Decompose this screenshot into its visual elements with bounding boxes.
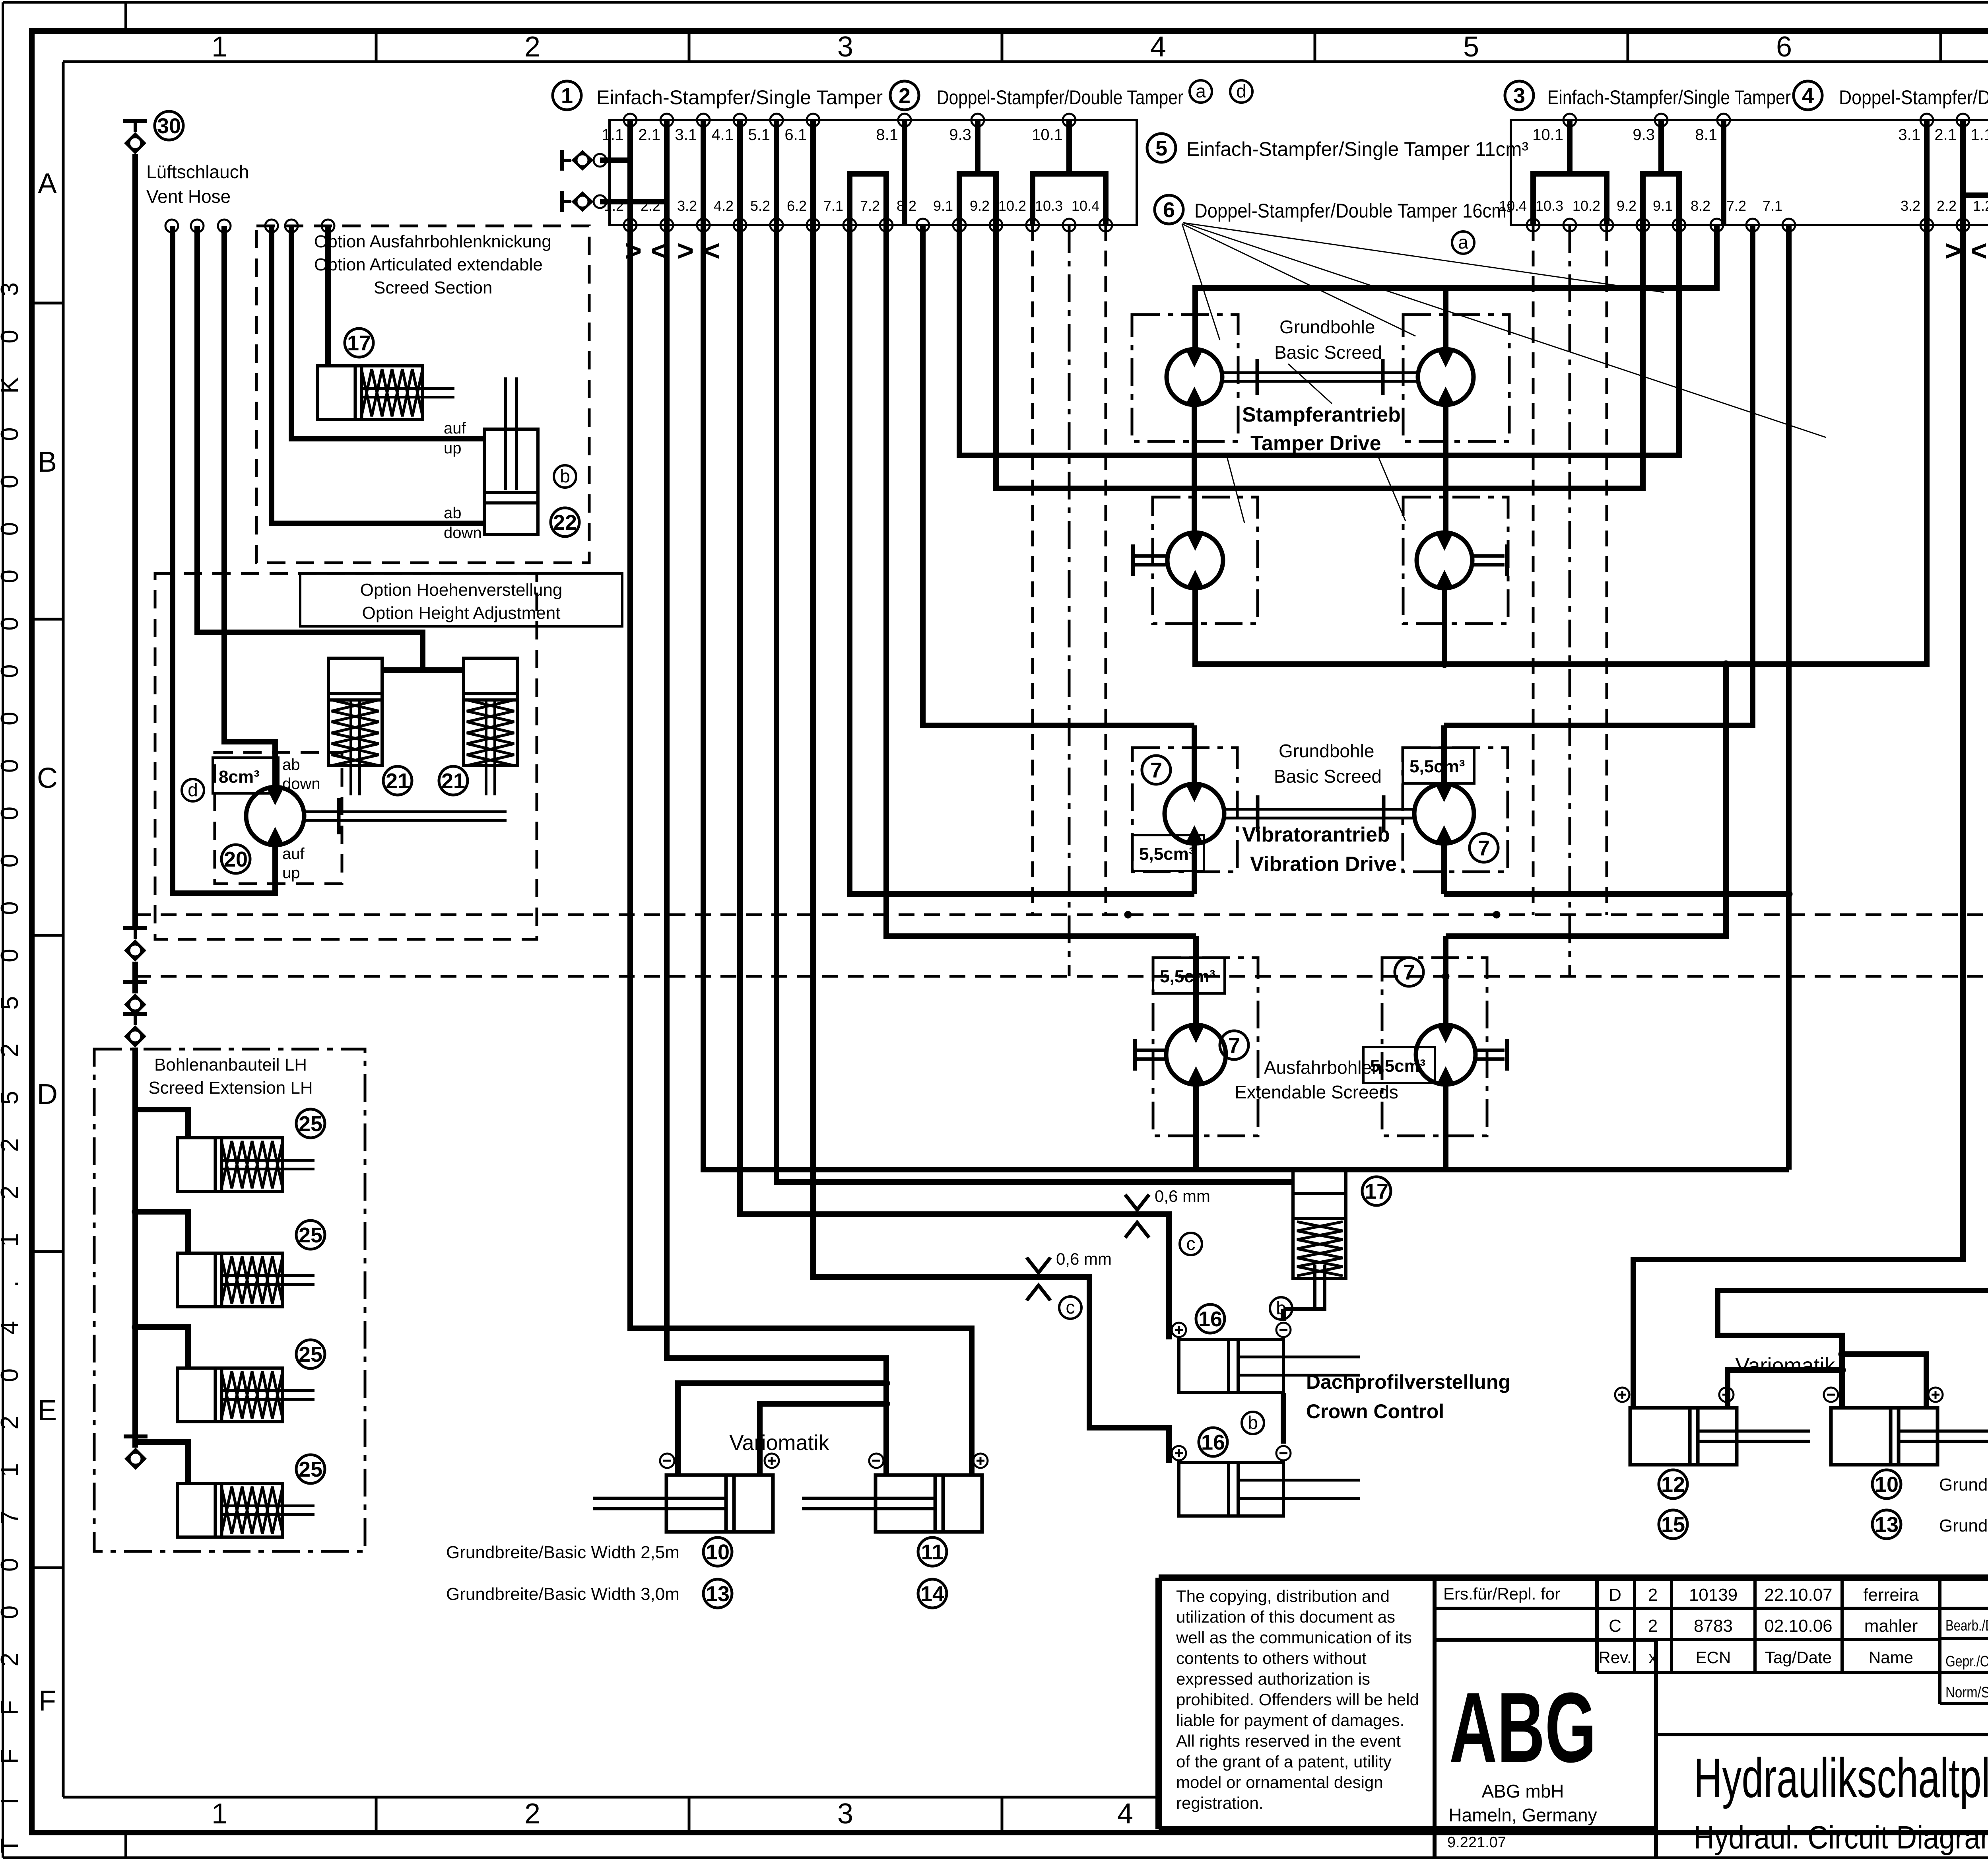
wire 8.1R drop (1721, 120, 1726, 225)
svg-text:2.1: 2.1 (1934, 126, 1957, 144)
label auf up left (444, 420, 466, 457)
wire 10.1 drop (1066, 120, 1072, 174)
callout 17 crown (1362, 1177, 1391, 1205)
norm row (1945, 1684, 1988, 1701)
svg-text:6: 6 (1163, 198, 1175, 222)
wire 20 top left (224, 226, 275, 787)
trunk 7.1 (850, 225, 1194, 894)
tamper2 shaft right (1472, 544, 1507, 576)
svg-text:ABG: ABG (1449, 1672, 1596, 1783)
label option articulated left (314, 232, 551, 297)
callout 10 left (703, 1537, 732, 1566)
wire 21 feed left (197, 226, 464, 670)
ext right shaft (1475, 1039, 1507, 1071)
svg-text:2: 2 (1648, 1585, 1658, 1605)
svg-text:13: 13 (706, 1582, 730, 1606)
bearb row (1945, 1615, 1988, 1635)
svg-text:Crown Control: Crown Control (1306, 1400, 1444, 1423)
left strip top terminals (624, 114, 1076, 126)
label single tamper left (596, 86, 883, 109)
svg-text:16: 16 (1201, 1430, 1225, 1454)
column labels bottom (212, 1798, 1133, 1830)
svg-text:Variomatik: Variomatik (729, 1431, 829, 1455)
callout 5 (1147, 134, 1176, 162)
label 55cm3 ext right (1363, 1047, 1435, 1083)
callout 7 vib left (1142, 756, 1171, 784)
right strip bottom terminals (1527, 219, 1988, 231)
LH bottom vent (124, 1436, 148, 1470)
svg-text:14: 14 (920, 1582, 944, 1606)
motor 20 left shaft (304, 798, 507, 834)
callout d left (182, 779, 204, 801)
callout 12 (1659, 1470, 1687, 1498)
svg-text:13: 13 (1875, 1513, 1899, 1537)
copyright text block (1176, 1587, 1419, 1812)
svg-text:Grundbohle: Grundbohle (1279, 741, 1374, 761)
motor vib right (1414, 725, 1474, 894)
bridge 9.2R-9.1R (1643, 174, 1679, 225)
motor ext left (1166, 936, 1226, 1170)
svg-text:7.2: 7.2 (860, 198, 880, 214)
label basic width right 30 (1939, 1516, 1988, 1535)
svg-text:3.2: 3.2 (1901, 198, 1920, 214)
dashed trunk 10.4R (1532, 225, 1535, 915)
svg-text:registration.: registration. (1176, 1794, 1263, 1812)
svg-text:9.2: 9.2 (970, 198, 990, 214)
LH extension dashed box (94, 1049, 365, 1551)
svg-text:auf: auf (444, 420, 466, 437)
svg-text:12: 12 (1661, 1473, 1685, 1497)
motor M1 left tamper (1167, 349, 1222, 405)
right strip bottom port labels (1499, 198, 1988, 214)
callout 16 upper (1196, 1304, 1225, 1333)
left strip bottom terminals (624, 219, 1112, 231)
svg-text:10.4: 10.4 (1499, 198, 1527, 214)
svg-text:Hydraulikschaltplan: Hydraulikschaltplan (1694, 1747, 1988, 1809)
tamper box 2 right (1403, 497, 1508, 624)
svg-text:Hydraul. Circuit Diagram: Hydraul. Circuit Diagram (1694, 1819, 1988, 1856)
wire 10.1R drop (1567, 120, 1573, 174)
label 55cm3 vib right (1403, 748, 1474, 783)
svg-text:A: A (38, 168, 57, 200)
svg-text:16: 16 (1198, 1307, 1222, 1331)
label screed extension LH (148, 1055, 313, 1098)
cyl 17 left (317, 226, 454, 420)
svg-text:0,6 mm: 0,6 mm (1056, 1250, 1112, 1268)
svg-text:a: a (1458, 232, 1468, 253)
title text (1694, 1747, 1988, 1856)
callout 2 (890, 81, 919, 110)
ext left shaft (1135, 1039, 1166, 1071)
svg-text:7: 7 (1228, 1034, 1240, 1057)
svg-text:5,5cm³: 5,5cm³ (1409, 757, 1465, 776)
wire lower16 link (1281, 1393, 1286, 1444)
ext box left (1153, 958, 1258, 1136)
svg-text:25: 25 (299, 1223, 322, 1247)
svg-text:Vent Hose: Vent Hose (146, 186, 231, 207)
cyl 21 left b (464, 658, 517, 795)
LH extension cylinders 25 (177, 1138, 315, 1537)
label basic width left 25 (446, 1543, 679, 1562)
vario bridge left a (678, 1380, 890, 1475)
svg-text:6.2: 6.2 (787, 198, 807, 214)
tamper bottom bus (1195, 225, 1927, 668)
svg-text:down: down (282, 775, 320, 793)
svg-text:ab: ab (282, 756, 300, 774)
label crown control (1306, 1371, 1510, 1423)
vario bridge right a (1728, 1366, 1846, 1408)
crown pm upper (1172, 1323, 1291, 1337)
svg-text:Doppel-Stampfer/Double Tamper: Doppel-Stampfer/Double Tamper (1839, 86, 1988, 109)
dashed box motor20 left (215, 752, 342, 884)
left tamper connector box (610, 120, 1137, 225)
callout c lower (1059, 1296, 1081, 1319)
callout 15 (1659, 1510, 1687, 1539)
svg-text:25: 25 (299, 1343, 322, 1366)
svg-text:F: F (39, 1685, 56, 1717)
svg-text:8.2: 8.2 (1691, 198, 1710, 214)
svg-text:9.3: 9.3 (1633, 126, 1655, 144)
svg-text:Bohlenanbauteil LH: Bohlenanbauteil LH (154, 1055, 307, 1075)
label 55cm3 ext left (1153, 958, 1225, 993)
label ab down 20 left (282, 756, 320, 793)
ext box right (1382, 958, 1487, 1136)
LH feed branches (132, 1110, 188, 1483)
svg-text:D: D (37, 1079, 58, 1110)
svg-text:Gepr./Chkd.: Gepr./Chkd. (1945, 1653, 1988, 1670)
svg-text:b: b (1248, 1412, 1258, 1433)
vario cyl right b (1831, 1408, 1988, 1465)
svg-text:2: 2 (524, 31, 540, 63)
svg-text:Vibration Drive: Vibration Drive (1250, 853, 1397, 876)
motor M2 left tamper (1167, 533, 1223, 588)
svg-text:Einfach-Stampfer/Single Tamper: Einfach-Stampfer/Single Tamper 11cm³ (1186, 138, 1528, 160)
right tamper connector box (1511, 120, 1988, 225)
ers fuer cell (1435, 1578, 1656, 1672)
svg-text:Option Height Adjustment: Option Height Adjustment (362, 603, 561, 623)
callout 4 (1794, 81, 1822, 110)
cyl 21 left a (328, 658, 382, 795)
svg-text:Hameln, Germany: Hameln, Germany (1448, 1805, 1597, 1825)
svg-text:8783: 8783 (1694, 1616, 1733, 1636)
label ausfahrbohlen (1235, 1057, 1398, 1102)
svg-text:10.3: 10.3 (1536, 198, 1563, 214)
svg-text:22.10.07: 22.10.07 (1764, 1585, 1832, 1605)
fold mark bottom-left (124, 1833, 127, 1858)
svg-text:>: > (1945, 235, 1961, 267)
right check valve lower (1963, 185, 1988, 206)
right strip crossover marks (1945, 235, 1988, 267)
svg-text:1.1: 1.1 (602, 126, 624, 144)
svg-text:6.1: 6.1 (784, 126, 807, 144)
svg-text:8.1: 8.1 (1695, 126, 1717, 144)
trunk 3.2 (703, 225, 1196, 1170)
rev table grid (1597, 1578, 1988, 1704)
LH callouts 25 (296, 1109, 325, 1483)
bridge 7.1-7.2 (850, 174, 886, 225)
svg-text:x: x (1649, 1648, 1657, 1667)
svg-text:7.1: 7.1 (823, 198, 843, 214)
svg-text:17: 17 (347, 331, 371, 355)
vib shaft (1224, 795, 1414, 832)
dashed boundary lower (135, 973, 1988, 980)
svg-text:Grundbreite/Basic Width 2,5m: Grundbreite/Basic Width 2,5m (446, 1543, 679, 1562)
svg-text:Norm/Stds.: Norm/Stds. (1945, 1684, 1988, 1701)
dashed trunk 10.2R (1606, 225, 1608, 915)
trunk 2.2 (667, 225, 886, 1475)
svg-text:D: D (1609, 1585, 1621, 1605)
callout 7 ext left (1220, 1031, 1248, 1059)
ABG title divider (1654, 1640, 1658, 1858)
svg-text:Option Articulated extendable: Option Articulated extendable (314, 255, 543, 274)
svg-text:1: 1 (561, 84, 573, 108)
svg-text:30: 30 (157, 114, 181, 138)
callout 6 (1155, 195, 1183, 224)
svg-text:ferreira: ferreira (1863, 1585, 1919, 1605)
tamper box 1 right (1403, 315, 1509, 441)
svg-text:5.1: 5.1 (748, 126, 770, 144)
dashed trunk 10.3R (1569, 225, 1571, 976)
junction dots row1 (1191, 452, 1449, 492)
svg-text:Basic Screed: Basic Screed (1274, 342, 1382, 363)
label double tamper 16cm3 (1194, 200, 1512, 222)
bridge 9.1-9.2 (959, 174, 996, 225)
dashed trunk 10.4 (1105, 225, 1107, 915)
callout a top-left (1190, 80, 1212, 103)
svg-text:9.221.07: 9.221.07 (1447, 1834, 1506, 1851)
left check valve lower (562, 191, 667, 212)
trunk 8.2 (923, 225, 1194, 725)
wire 20 bottom left (173, 226, 275, 893)
label stampferantrieb (1242, 403, 1401, 455)
tamper box 2 left (1153, 497, 1258, 624)
label option height left (360, 580, 563, 623)
svg-text:5,5cm³: 5,5cm³ (1139, 844, 1194, 864)
svg-text:E: E (38, 1395, 57, 1427)
wire auf left (291, 226, 484, 439)
vib bottom bus right (1444, 225, 1789, 894)
vario bridge left b (760, 1400, 890, 1475)
callout 21 left b (439, 766, 468, 795)
svg-text:02.10.06: 02.10.06 (1764, 1616, 1832, 1636)
dashed boundary upper (135, 911, 1988, 918)
svg-text:10.3: 10.3 (1035, 198, 1063, 214)
svg-text:>: > (677, 235, 694, 267)
callout 21 left a (383, 766, 412, 795)
bridge 10.2-10.4 (1033, 174, 1106, 225)
svg-text:Lüftschlauch: Lüftschlauch (146, 161, 249, 182)
dashed trunk 10.3 (1068, 225, 1071, 976)
svg-text:c: c (1066, 1297, 1075, 1318)
callout 17 left (345, 328, 373, 357)
svg-text:5: 5 (1155, 136, 1167, 160)
svg-text:b: b (560, 466, 570, 486)
svg-text:4: 4 (1117, 1798, 1133, 1830)
callout 11 left (918, 1537, 947, 1566)
svg-text:Basic Screed: Basic Screed (1274, 766, 1382, 787)
motor M1 right tamper (1418, 288, 1474, 405)
svg-text:Stampferantrieb: Stampferantrieb (1242, 403, 1401, 426)
fold mark top-left (124, 2, 127, 31)
callout d top-left (1230, 80, 1252, 103)
svg-text:Screed Section: Screed Section (374, 278, 492, 297)
trunk 1.2 (630, 225, 972, 1475)
svg-text:d: d (1236, 81, 1246, 101)
svg-text:Option Hoehenverstellung: Option Hoehenverstellung (360, 580, 563, 600)
svg-text:15: 15 (1661, 1513, 1685, 1537)
svg-text:a: a (1196, 81, 1206, 101)
svg-text:1: 1 (212, 31, 227, 63)
left strip top port labels (602, 126, 1063, 144)
vib box right (1403, 748, 1508, 872)
svg-text:2.2: 2.2 (1937, 198, 1957, 214)
right strip top port labels (1532, 126, 1988, 144)
trunk 6.2 (813, 225, 1169, 1463)
left strip through wires (630, 120, 813, 225)
rev row C (1609, 1616, 1918, 1636)
svg-text:10.2: 10.2 (1573, 198, 1600, 214)
vario left pm (660, 1454, 988, 1468)
svg-text:Rev.: Rev. (1598, 1648, 1631, 1667)
callout 1 (553, 81, 581, 110)
ABG logo (1448, 1672, 1597, 1825)
svg-text:4.2: 4.2 (714, 198, 734, 214)
svg-text:1: 1 (212, 1798, 227, 1830)
title block outline (1159, 1578, 1988, 1858)
svg-text:7.1: 7.1 (1763, 198, 1782, 214)
callout 3 (1505, 81, 1534, 110)
svg-text:9.2: 9.2 (1617, 198, 1637, 214)
motor 20 left (246, 787, 304, 845)
callout c upper (1180, 1233, 1202, 1255)
label single tamper 11cm3 (1186, 138, 1528, 160)
left strip bottom port labels (604, 198, 1099, 214)
left option box dashed (256, 226, 589, 563)
callout 7 ext right (1395, 958, 1423, 986)
svg-text:model or ornamental design: model or ornamental design (1176, 1773, 1383, 1792)
svg-text:Doppel-Stampfer/Double Tamper: Doppel-Stampfer/Double Tamper (937, 86, 1183, 109)
gepr row (1945, 1651, 1988, 1670)
wire 8.1 drop (902, 120, 907, 225)
svg-text:2: 2 (899, 84, 911, 108)
svg-text:Vibratorantrieb: Vibratorantrieb (1242, 823, 1390, 846)
svg-text:mahler: mahler (1864, 1616, 1918, 1636)
label grundbohle vib (1274, 741, 1382, 787)
callout 7 vib right (1470, 834, 1498, 862)
svg-text:Tamper Drive: Tamper Drive (1250, 432, 1381, 455)
callout 20 left (221, 845, 250, 873)
svg-text:Grundbreite/Basic Width 3,0m: Grundbreite/Basic Width 3,0m (446, 1584, 679, 1604)
motor vib left (1165, 725, 1224, 894)
svg-text:Doppel-Stampfer/Double Tamper: Doppel-Stampfer/Double Tamper 16cm³ (1194, 200, 1512, 222)
label variomatik right (1735, 1354, 1835, 1378)
svg-text:expressed authorization is: expressed authorization is (1176, 1670, 1370, 1688)
label 8cm3 left (213, 758, 278, 793)
svg-text:C: C (1609, 1616, 1621, 1636)
orifice upper (1125, 1187, 1210, 1238)
svg-text:2: 2 (524, 1798, 540, 1830)
crown pm lower (1172, 1446, 1291, 1460)
label auf up 20 left (282, 845, 305, 882)
svg-text:Option Ausfahrbohlenknickung: Option Ausfahrbohlenknickung (314, 232, 551, 251)
svg-text:Einfach-Stampfer/Single Tamper: Einfach-Stampfer/Single Tamper (1547, 86, 1791, 109)
cyl b22 left (484, 377, 538, 534)
label double tamper right (1839, 86, 1988, 109)
svg-text:B: B (38, 446, 57, 478)
rev row D (1609, 1585, 1919, 1605)
svg-text:10: 10 (706, 1540, 730, 1564)
svg-text:25: 25 (299, 1458, 322, 1481)
svg-text:25: 25 (299, 1112, 322, 1136)
label vibratorantrieb (1242, 823, 1397, 876)
svg-text:<: < (1971, 235, 1987, 267)
leader fan from callout 6 (1182, 223, 1826, 437)
callout a mid (1452, 231, 1474, 254)
vario right wire B (1718, 225, 1988, 1408)
svg-text:11: 11 (921, 1540, 944, 1564)
svg-text:C: C (37, 762, 58, 794)
svg-text:Dachprofilverstellung: Dachprofilverstellung (1306, 1371, 1510, 1393)
svg-text:7: 7 (1478, 836, 1490, 860)
svg-text:8cm³: 8cm³ (219, 767, 260, 787)
svg-text:3: 3 (1513, 84, 1525, 108)
left option terminals row (165, 220, 334, 232)
svg-text:Grundbreite/Basic Width 2,5m: Grundbreite/Basic Width 2,5m (1939, 1475, 1988, 1495)
svg-text:20: 20 (224, 847, 248, 871)
svg-text:2: 2 (1648, 1616, 1658, 1636)
svg-text:22: 22 (553, 511, 577, 534)
svg-text:21: 21 (441, 769, 465, 793)
right strip through wires (1927, 120, 1988, 225)
vario cyl right a (1630, 1408, 1810, 1465)
svg-text:10.4: 10.4 (1072, 198, 1099, 214)
trunk 7.2 (886, 225, 1196, 936)
left vent chain mid (123, 928, 147, 1448)
film id vertical text (0, 282, 23, 1853)
svg-text:10.1: 10.1 (1532, 126, 1563, 144)
svg-text:utilization of this document a: utilization of this document as (1176, 1607, 1395, 1626)
dashed trunk 10.2 (1031, 225, 1034, 915)
ext top bus right (1446, 661, 1730, 936)
svg-text:Grundbreite/Basic Width 3,0m: Grundbreite/Basic Width 3,0m (1939, 1516, 1988, 1535)
svg-text:Name: Name (1869, 1648, 1913, 1667)
svg-text:1.2: 1.2 (1973, 198, 1988, 214)
left height label box (300, 573, 622, 626)
first row motor stubs (1194, 405, 1446, 533)
svg-text:of the grant of a patent, util: of the grant of a patent, utility (1176, 1752, 1392, 1771)
svg-text:4: 4 (1802, 84, 1814, 108)
svg-text:d: d (188, 779, 198, 800)
vario cyl left b (802, 1475, 982, 1532)
column ticks top (376, 31, 1988, 62)
label 55cm3 vib left (1132, 835, 1204, 871)
svg-text:Grundbohle: Grundbohle (1279, 317, 1375, 337)
column labels top (212, 31, 1988, 63)
svg-text:down: down (444, 524, 482, 542)
callout 30 (155, 111, 183, 140)
svg-text:3: 3 (837, 1798, 853, 1830)
svg-text:4.1: 4.1 (711, 126, 734, 144)
vario right wire A (1633, 225, 1963, 1408)
svg-text:Bearb./Drawn: Bearb./Drawn (1945, 1617, 1988, 1634)
svg-text:ECN: ECN (1696, 1648, 1731, 1667)
svg-text:17: 17 (1365, 1180, 1388, 1203)
svg-text:Extendable Screeds: Extendable Screeds (1235, 1082, 1398, 1102)
ext bottom bus (1196, 890, 1792, 1170)
rev row header (1598, 1648, 1913, 1667)
label vent hose (146, 161, 249, 207)
trunk 9.2 (996, 225, 1643, 488)
